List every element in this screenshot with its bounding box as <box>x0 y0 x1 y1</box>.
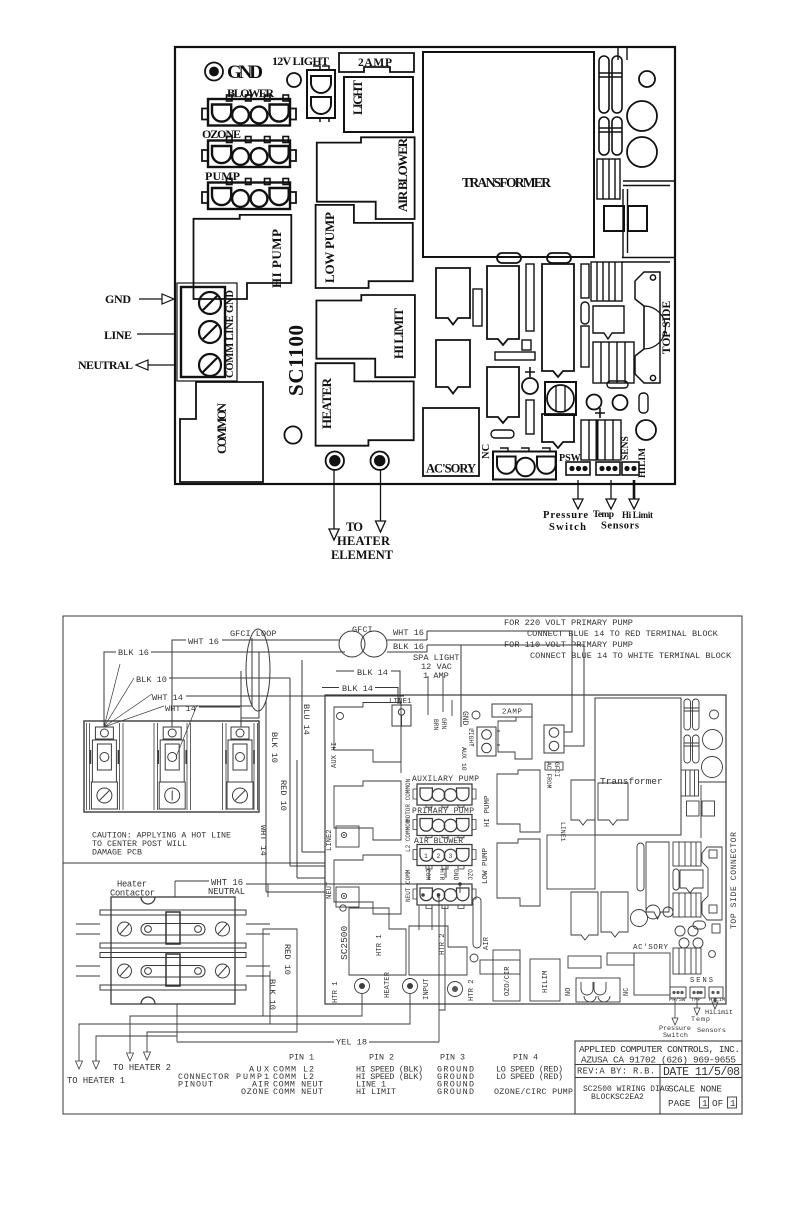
svg-text:AZUSA CA 91702 (626) 969-9655: AZUSA CA 91702 (626) 969-9655 <box>581 1055 736 1066</box>
capacitor CE2 <box>627 137 657 167</box>
label BLK 14 b <box>322 684 398 704</box>
terminal strip TS4 <box>673 893 701 917</box>
svg-text:COMM LINE GND: COMM LINE GND <box>225 290 236 378</box>
svg-text:PIN 4: PIN 4 <box>513 1053 538 1063</box>
connector air-blower <box>413 845 476 870</box>
svg-text:GND: GND <box>460 711 469 726</box>
via c1 <box>337 713 344 720</box>
svg-text:ELEMENT: ELEMENT <box>331 548 394 562</box>
svg-text:TO HEATER 1: TO HEATER 1 <box>67 1076 125 1086</box>
gfci loop ellipse <box>246 629 270 711</box>
wire fan breaker2 <box>176 705 197 757</box>
svg-text:HI PUMP: HI PUMP <box>269 229 284 288</box>
svg-text:SCALE NONE: SCALE NONE <box>668 1084 722 1095</box>
terminal neut <box>336 887 359 907</box>
resistor R1 <box>473 289 482 326</box>
svg-text:PAGE: PAGE <box>668 1098 691 1109</box>
svg-text:TOP SIDE CONNECTOR: TOP SIDE CONNECTOR <box>730 832 739 929</box>
svg-text:LINE1: LINE1 <box>559 822 566 842</box>
svg-text:WHT 16: WHT 16 <box>393 628 424 638</box>
BOTTOM-DIAGRAM <box>63 616 742 1114</box>
connector aux-pump <box>413 784 476 807</box>
connector light spa <box>467 727 500 756</box>
diode D3 <box>607 381 628 388</box>
label Temp Sensors 2 <box>691 1016 726 1035</box>
svg-text:AIR: AIR <box>483 936 491 950</box>
wire contactor bottom to yel18 <box>176 1004 178 1042</box>
label TO HEATER ELEMENT <box>331 520 394 562</box>
svg-text:PINOUT: PINOUT <box>178 1080 213 1090</box>
relay KB line2 <box>326 781 401 851</box>
screw terminal HTR1 <box>355 979 370 994</box>
svg-text:Sensors: Sensors <box>697 1027 726 1035</box>
arrow pressure <box>573 480 583 509</box>
via hole 2 <box>284 426 301 443</box>
pad sq <box>522 340 531 350</box>
box heater region <box>349 908 467 975</box>
label NEUTRAL left <box>78 358 176 372</box>
svg-text:LINE2: LINE2 <box>326 829 334 851</box>
svg-text:HTR 1: HTR 1 <box>376 934 384 956</box>
svg-text:AC'SORY: AC'SORY <box>633 944 668 952</box>
svg-text:GND: GND <box>452 869 459 881</box>
connector primary-pump <box>413 815 476 838</box>
capsule RS1 <box>673 869 679 890</box>
svg-text:HTR 2: HTR 2 <box>439 933 447 955</box>
wire neutral <box>64 863 461 897</box>
wire YEL 18 <box>177 896 439 1048</box>
capacitor C5 <box>522 378 538 394</box>
capacitor C6 <box>587 395 602 410</box>
svg-text:GND: GND <box>105 292 131 306</box>
svg-text:L2 COMMON: L2 COMMON <box>405 819 412 852</box>
capacitor CB1 <box>631 910 648 927</box>
resistor R6 <box>581 326 589 367</box>
svg-text:NC: NC <box>481 444 492 459</box>
label Heater Contactor <box>110 880 155 899</box>
svg-text:RED 10: RED 10 <box>282 944 292 975</box>
relay KA aux-hi <box>331 703 401 769</box>
via hole 4 <box>636 420 656 440</box>
svg-text:BLK 16: BLK 16 <box>118 648 149 658</box>
regulator Q2 <box>593 306 624 339</box>
svg-text:NEUT COMM: NEUT COMM <box>405 869 412 902</box>
terminal block TB1 <box>177 283 237 381</box>
breaker panel <box>84 721 259 812</box>
svg-text:OZONE: OZONE <box>241 1087 269 1097</box>
label BLK 16 <box>104 648 345 727</box>
svg-text:OZONE: OZONE <box>202 127 241 141</box>
svg-text:HTR: HTR <box>438 869 445 881</box>
svg-text:BLK 14: BLK 14 <box>342 684 373 694</box>
svg-text:CONNECT BLUE 14 TO WHITE TERMI: CONNECT BLUE 14 TO WHITE TERMINAL BLOCK <box>530 651 732 661</box>
svg-text:Pressure: Pressure <box>543 510 588 521</box>
IC UB6 <box>646 842 669 919</box>
arrow temp2 <box>694 998 700 1015</box>
label Pressure Switch 2 <box>659 1025 691 1040</box>
svg-text:INPUT: INPUT <box>423 978 431 1000</box>
svg-text:HI PUMP: HI PUMP <box>484 795 492 827</box>
breaker CB3 <box>226 727 254 809</box>
label Temp Sensors <box>593 510 639 532</box>
diode D2 <box>581 302 589 324</box>
capsule RS3 <box>637 843 644 891</box>
svg-text:LINE: LINE <box>104 328 132 342</box>
capacitor pair C1 C2 <box>599 56 622 113</box>
terminal strip TS5 <box>673 948 701 974</box>
svg-text:3: 3 <box>449 853 453 860</box>
wire pcb internal drops <box>401 700 452 1010</box>
svg-text:HTR 2: HTR 2 <box>468 979 476 1001</box>
fuse F2 2AMP <box>492 704 532 717</box>
svg-text:LOW PUMP: LOW PUMP <box>482 847 490 884</box>
TOP-DIAGRAM <box>78 47 675 562</box>
label SC2500 <box>339 905 350 960</box>
box AC'SORY <box>423 408 479 476</box>
svg-text:LIGHT: LIGHT <box>351 79 365 115</box>
ICs center-right cluster <box>480 762 634 974</box>
label BLK 16 right <box>387 642 584 746</box>
svg-text:NO: NO <box>565 988 573 996</box>
relay KC neut <box>326 855 401 914</box>
connector J5 <box>597 159 620 199</box>
heatsink smallB <box>702 847 722 920</box>
transformer T2 <box>595 698 681 835</box>
svg-text:OZONE/CIRC PUMP: OZONE/CIRC PUMP <box>494 1087 573 1097</box>
wire heater-2 <box>376 470 386 532</box>
wire WHT14 run <box>266 700 325 892</box>
label BLK 14 a <box>336 668 400 704</box>
wire contactor right <box>263 929 270 1024</box>
svg-text:LIGHT: LIGHT <box>467 728 474 747</box>
svg-text:TRANSFORMER: TRANSFORMER <box>462 175 551 190</box>
svg-text:OZC: OZC <box>466 869 473 881</box>
capacitor CE3 <box>545 382 576 415</box>
svg-text:NEUT: NEUT <box>326 881 334 899</box>
svg-text:TOP SIDE: TOP SIDE <box>661 301 673 354</box>
heatsink TOP SIDE <box>635 272 673 383</box>
svg-text:MOTOR COMMON: MOTOR COMMON <box>405 778 412 822</box>
regulator Q3 <box>593 342 634 383</box>
svg-text:Temp: Temp <box>691 1016 710 1024</box>
capacitor CE1 <box>627 101 657 131</box>
label Pressure Switch <box>543 510 588 533</box>
wire BLU14 <box>302 660 325 852</box>
capsule RS2 <box>693 921 706 929</box>
IC U4 <box>542 414 574 448</box>
svg-text:COMM NEUT: COMM NEUT <box>273 1087 323 1097</box>
svg-text:NC: NC <box>623 988 631 996</box>
svg-text:OF: OF <box>712 1098 723 1109</box>
relay K7 <box>436 340 470 394</box>
screw terminal HTR2 <box>448 982 463 997</box>
ground lug GND <box>205 63 223 81</box>
via c3 <box>470 954 478 962</box>
svg-text:Switch: Switch <box>663 1032 688 1040</box>
relay K2 LOW PUMP <box>316 205 413 288</box>
terminal line2 <box>336 826 359 847</box>
svg-text:BLOCKSC2EA2: BLOCKSC2EA2 <box>591 1093 644 1102</box>
svg-text:BLK 10: BLK 10 <box>267 979 277 1010</box>
svg-text:GND: GND <box>227 62 263 83</box>
svg-text:BRN: BRN <box>432 719 439 731</box>
label LINE1 <box>389 698 412 726</box>
via c2 <box>472 711 480 719</box>
svg-text:APPLIED COMPUTER CONTROLS, INC: APPLIED COMPUTER CONTROLS, INC. <box>579 1044 740 1055</box>
pad heater-1 <box>326 452 344 470</box>
svg-text:AUX 10: AUX 10 <box>460 747 467 771</box>
svg-text:Switch: Switch <box>549 522 586 533</box>
svg-text:SC2500: SC2500 <box>339 925 350 960</box>
wire heater feeds <box>79 929 410 1061</box>
resistor R5 <box>581 264 589 298</box>
capacitor CE5 <box>702 757 723 778</box>
svg-text:NEUTRAL: NEUTRAL <box>208 887 245 897</box>
svg-text:AC'SORY: AC'SORY <box>426 462 476 476</box>
svg-text:AUX HI: AUX HI <box>331 742 339 768</box>
wire BLK10 run <box>290 678 325 866</box>
label PR/SW TMP HILIM <box>669 997 725 1003</box>
svg-text:1: 1 <box>730 1098 736 1109</box>
svg-text:Hi Limit: Hi Limit <box>622 510 653 520</box>
connector pressure-relay <box>576 978 620 1002</box>
via cluster <box>646 905 703 948</box>
arrow press <box>672 998 678 1025</box>
svg-text:GFCI LOOP: GFCI LOOP <box>230 629 276 639</box>
trace bracket <box>622 181 674 262</box>
resistor R4 <box>526 400 534 434</box>
svg-text:TO HEATER 2: TO HEATER 2 <box>113 1063 171 1073</box>
IC U3 <box>542 264 574 377</box>
svg-text:HILIM: HILIM <box>638 448 648 478</box>
connector JB1 <box>681 770 699 796</box>
arrow temp <box>606 480 616 509</box>
svg-text:WHT 14: WHT 14 <box>152 693 183 703</box>
via hole b <box>710 710 719 719</box>
label LINE left <box>104 328 176 342</box>
svg-text:2AMP: 2AMP <box>502 709 522 717</box>
relay K1 HI PUMP <box>194 215 292 299</box>
svg-text:GFCI: GFCI <box>352 625 373 635</box>
label GND left <box>105 292 174 306</box>
caution note <box>92 832 231 858</box>
IC UB5 <box>680 870 703 893</box>
svg-text:1: 1 <box>702 1098 708 1109</box>
svg-text:Sensors: Sensors <box>601 521 639 532</box>
label WHT 16 <box>172 637 339 727</box>
svg-text:GRN: GRN <box>440 718 447 730</box>
svg-text:NEUTRAL: NEUTRAL <box>78 358 133 372</box>
svg-text:HI LIMIT: HI LIMIT <box>391 308 406 359</box>
svg-text:HEATER: HEATER <box>319 377 334 429</box>
region COMMON <box>180 382 263 482</box>
plus mark <box>525 367 535 377</box>
relay KE <box>497 770 540 832</box>
label BLK 10 <box>136 675 290 685</box>
wire heater-1 <box>329 470 339 540</box>
wire stubs top edge <box>618 47 627 60</box>
capacitor pair CP2 <box>684 735 699 763</box>
label WHT 16 NEUTRAL <box>208 878 245 897</box>
svg-text:2AMP: 2AMP <box>358 57 392 69</box>
svg-text:GROUND: GROUND <box>437 1087 474 1097</box>
relay K5 HEATER <box>316 363 414 446</box>
svg-text:LOW PUMP: LOW PUMP <box>322 212 337 283</box>
connector ac-from-gfci <box>544 725 564 789</box>
svg-text:PIN 2: PIN 2 <box>369 1053 394 1063</box>
svg-text:BLK 10: BLK 10 <box>136 675 167 685</box>
svg-text:1 AMP: 1 AMP <box>423 671 449 681</box>
svg-text:BLK 16: BLK 16 <box>393 642 424 652</box>
svg-text:AUXILARY PUMP: AUXILARY PUMP <box>412 775 479 784</box>
via hole <box>287 73 301 87</box>
connector J-temp <box>596 462 620 475</box>
svg-text:WHT 16: WHT 16 <box>188 637 219 647</box>
relay KF <box>497 839 540 906</box>
regulator Q1 <box>591 262 622 301</box>
pad sq b <box>712 924 720 933</box>
resistor R3 <box>495 352 535 360</box>
connector sens-psw <box>670 987 686 998</box>
capacitor pair C3 C4 <box>599 117 622 155</box>
svg-text:Temp: Temp <box>593 510 614 520</box>
connector htr-gnd <box>413 884 476 909</box>
connector sens-hilim <box>709 987 723 998</box>
svg-text:TO: TO <box>346 520 363 534</box>
note 220V primary pump <box>504 618 732 661</box>
svg-text:HI LIMIT: HI LIMIT <box>356 1087 396 1097</box>
connector J6 <box>493 448 556 480</box>
transformer T1 <box>423 52 594 263</box>
arrow to heater A <box>76 1052 151 1069</box>
plus mark 2 <box>595 408 605 418</box>
via hole 3 <box>639 71 655 87</box>
breaker CB2 <box>158 727 186 809</box>
svg-text:TMP: TMP <box>691 997 701 1003</box>
connector J-hilim <box>622 462 639 475</box>
svg-text:REV:A BY: R.B.: REV:A BY: R.B. <box>577 1067 655 1077</box>
svg-text:COMMON: COMMON <box>215 403 229 454</box>
relay K3 AIR BLOWER <box>317 137 415 219</box>
svg-text:Transformer: Transformer <box>600 776 663 787</box>
box OZO/CIR <box>493 950 520 1001</box>
svg-text:PIN 3: PIN 3 <box>440 1053 465 1063</box>
wire gfci loop feeds <box>173 638 259 727</box>
svg-text:AIR BLOWER: AIR BLOWER <box>395 137 410 212</box>
trace corner <box>699 782 727 838</box>
capacitor C7 <box>613 395 628 410</box>
IC U1 <box>487 266 519 345</box>
relay K6 <box>436 268 470 325</box>
terminal strip TS2 <box>581 420 621 460</box>
svg-text:DAMAGE PCB: DAMAGE PCB <box>92 849 142 858</box>
title block <box>575 1041 742 1114</box>
resistor R7 <box>639 393 648 413</box>
svg-text:LO SPEED (RED): LO SPEED (RED) <box>496 1072 563 1082</box>
board outline SC1100 <box>175 47 675 484</box>
resistor R2 <box>526 264 534 331</box>
svg-text:HTR 1: HTR 1 <box>332 981 340 1003</box>
svg-text:DATE 11/5/08: DATE 11/5/08 <box>663 1066 740 1079</box>
GFCI breaker <box>339 625 387 657</box>
connector sens-temp <box>690 987 705 998</box>
screw terminal INPUT <box>403 979 418 994</box>
bridge rectifier BR1 <box>604 206 647 231</box>
svg-text:BLK 10: BLK 10 <box>269 732 279 763</box>
arrow hilim2 <box>712 998 718 1009</box>
svg-text:BLK 14: BLK 14 <box>357 668 388 678</box>
svg-text:HEATER: HEATER <box>337 534 391 548</box>
svg-text:SENS: SENS <box>690 977 713 985</box>
capacitor pair CP1 <box>684 699 699 730</box>
svg-text:PR/SW: PR/SW <box>669 997 686 1003</box>
heater contactor <box>76 897 270 1004</box>
wire breaker3 feed <box>460 645 462 727</box>
relay K4 HI LIMIT <box>316 295 415 377</box>
svg-text:HiLimit: HiLimit <box>705 1009 733 1017</box>
diode D1 <box>491 430 514 438</box>
label WHT 14 a <box>152 693 404 703</box>
pad heater-2 <box>371 452 389 470</box>
label WHT 14 b <box>165 704 240 714</box>
svg-text:1: 1 <box>424 853 428 860</box>
pin table <box>178 1053 573 1098</box>
svg-text:COM: COM <box>424 869 431 881</box>
arrow hilimit <box>629 480 639 509</box>
relay K-light LIGHT <box>344 77 413 132</box>
svg-text:OZO/CIR: OZO/CIR <box>504 966 512 996</box>
wire RED10 run <box>297 760 325 878</box>
box ACS2 <box>634 953 670 995</box>
svg-text:RED 10: RED 10 <box>278 780 288 811</box>
via small c <box>709 951 716 958</box>
svg-text:PUMP: PUMP <box>205 169 240 183</box>
svg-text:HILIM: HILIM <box>542 970 550 993</box>
svg-text:PIN 1: PIN 1 <box>289 1053 314 1063</box>
box HILIM <box>530 959 560 1001</box>
relay KD hi-pump <box>498 717 532 759</box>
svg-text:AC FROM: AC FROM <box>545 762 552 789</box>
svg-text:YEL 18: YEL 18 <box>336 1038 367 1048</box>
bridge BR2 <box>687 801 715 816</box>
label WHT 16 right <box>387 628 572 732</box>
connector J-psw <box>566 462 590 475</box>
connector J-light 12V <box>307 66 335 122</box>
fuse F1 2AMP <box>339 53 414 72</box>
PCB SC2500 board <box>325 695 726 1004</box>
capacitor CE4 <box>703 730 723 750</box>
wire fan breaker1 <box>104 664 164 727</box>
terminal strip TS3 <box>673 842 701 866</box>
capsule air <box>473 897 481 948</box>
breaker CB1 <box>90 727 118 809</box>
svg-text:FOR 220 VOLT PRIMARY PUMP: FOR 220 VOLT PRIMARY PUMP <box>504 618 633 628</box>
svg-text:SC1100: SC1100 <box>284 325 308 396</box>
IC U2 <box>487 367 519 423</box>
svg-text:2: 2 <box>437 853 441 860</box>
wire spa light feeds <box>413 653 459 715</box>
svg-text:SENS: SENS <box>621 436 631 460</box>
labels COM HTR GND OZC <box>424 869 473 881</box>
